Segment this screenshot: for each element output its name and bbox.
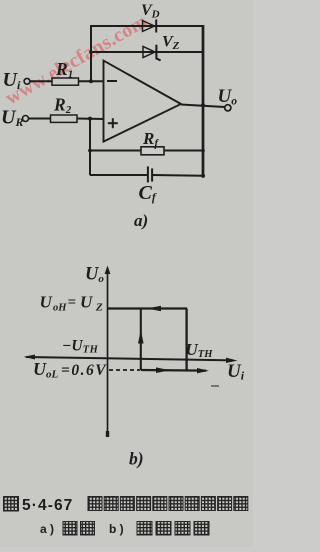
wire: Cf branch bbox=[90, 174, 203, 177]
terminal U_o bbox=[225, 105, 231, 111]
node: feedback crosses VZ wire bbox=[89, 50, 93, 54]
zener diode VZ bbox=[143, 45, 161, 61]
node: non-inverting junction bbox=[88, 117, 92, 121]
svg-text:UoL =0.6V: UoL =0.6V bbox=[33, 359, 107, 381]
label b) bbox=[129, 449, 144, 469]
label a) bbox=[134, 211, 148, 230]
wire: R1 to inverting input bbox=[79, 80, 104, 82]
label Cf bbox=[139, 182, 157, 204]
diode VD bbox=[143, 20, 157, 33]
label U_R bbox=[1, 107, 23, 130]
svg-text:a): a) bbox=[134, 211, 148, 230]
watermark www.elecfans.com bbox=[2, 10, 152, 109]
svg-text:b ): b ) bbox=[109, 522, 124, 536]
label R1 bbox=[55, 59, 73, 81]
wire: VZ branch bbox=[90, 51, 203, 53]
label R2 bbox=[53, 95, 72, 117]
label VD bbox=[141, 2, 160, 21]
label U_o bbox=[218, 86, 238, 108]
dashed UoL level from axis bbox=[109, 369, 140, 371]
svg-text:b): b) bbox=[129, 449, 144, 469]
wire: positive feedback vertical bbox=[89, 119, 91, 176]
graph x-axis U_i bbox=[24, 355, 238, 364]
wire: right feedback rail bbox=[202, 25, 205, 176]
node: inverting input junction bbox=[89, 79, 93, 83]
svg-text:a ): a ) bbox=[40, 522, 54, 536]
wire: Rf branch bbox=[90, 150, 203, 152]
label Rf bbox=[142, 129, 159, 150]
caption title hanzi bbox=[88, 497, 248, 511]
transfer curve: bottom level UoL line with right arrows bbox=[141, 367, 209, 373]
terminal U_R bbox=[23, 116, 29, 122]
stray mark bbox=[211, 385, 219, 387]
node: output rail junction bbox=[201, 103, 205, 107]
resistor R2 bbox=[51, 115, 78, 122]
transfer curve: left vertical at -UTH with up arrow bbox=[138, 309, 144, 371]
resistor R1 bbox=[52, 78, 79, 85]
caption figure number bbox=[4, 497, 74, 515]
label U_o axis bbox=[85, 265, 104, 286]
label VZ bbox=[162, 34, 180, 53]
label -UTH bbox=[62, 338, 99, 356]
transfer curve: right vertical at UTH bbox=[185, 309, 187, 371]
wire: VD branch top bbox=[90, 25, 203, 27]
node: rail bottom junction bbox=[201, 174, 205, 178]
caption sub b) label bbox=[109, 522, 209, 537]
label U_i axis bbox=[227, 361, 245, 383]
op-amp U1 bbox=[104, 61, 182, 142]
node: rail Rf junction bbox=[201, 149, 205, 153]
resistor Rf bbox=[141, 147, 164, 155]
wire: U_i input lead to R1 bbox=[30, 80, 52, 82]
node: Rf left junction bbox=[88, 149, 92, 153]
label UoH = UZ bbox=[40, 293, 104, 314]
terminal U_i bbox=[24, 78, 30, 84]
graph y-axis U_o bbox=[105, 266, 111, 438]
wire: feedback vertical to diodes bbox=[90, 26, 92, 82]
wire: U_R input lead to R2 bbox=[29, 118, 51, 120]
label UTH bbox=[186, 340, 214, 360]
wire: op-amp output bbox=[181, 105, 225, 108]
wire: R2 to non-inverting input bbox=[77, 118, 104, 121]
label UoL = 0.6V bbox=[33, 359, 107, 381]
paper background bbox=[0, 0, 253, 547]
label U_i bbox=[3, 69, 21, 92]
transfer curve: top level UoH line with left arrow bbox=[108, 306, 187, 312]
caption sub a) label bbox=[40, 522, 95, 537]
svg-text:5·4-67: 5·4-67 bbox=[22, 497, 73, 514]
capacitor Cf bbox=[148, 166, 152, 182]
